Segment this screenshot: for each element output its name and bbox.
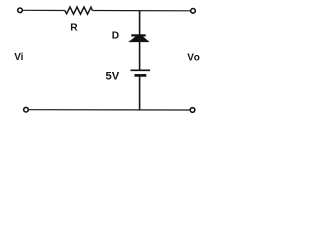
diode D (zener, cathode up): cathode bar <box>131 34 145 36</box>
svg-text:Vi: Vi <box>14 52 23 63</box>
wire top rail right segment <box>92 10 190 12</box>
diode D: anode triangle <box>128 36 150 42</box>
svg-text:D: D <box>112 30 119 41</box>
wire top rail left segment <box>23 9 65 11</box>
svg-text:5V: 5V <box>106 70 120 82</box>
wire branch: top rail to diode cathode <box>139 11 141 35</box>
terminal bottom-right (Vo -) <box>190 108 195 113</box>
wire bottom rail <box>29 109 190 111</box>
svg-text:R: R <box>70 23 78 34</box>
battery 5V: positive plate (long) <box>131 69 151 71</box>
terminal top-right (Vo +) <box>191 9 196 14</box>
terminal top-left (Vi +) <box>18 8 23 13</box>
terminal bottom-left (Vi -) <box>24 107 29 112</box>
battery 5V: negative plate (short thick) <box>135 74 147 77</box>
wire: battery to bottom rail <box>139 77 141 110</box>
svg-text:Vo: Vo <box>187 52 200 63</box>
wire: diode anode to battery <box>139 42 141 71</box>
resistor R <box>65 7 93 14</box>
